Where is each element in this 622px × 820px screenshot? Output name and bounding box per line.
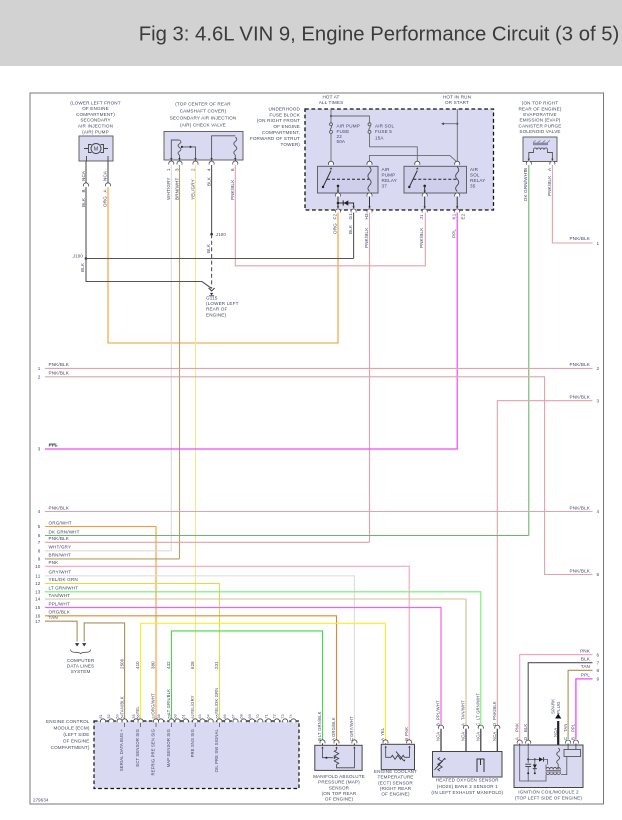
net right3 PNK/BLK to HO2S pin D [497,401,592,727]
MAP sensor wires labels [320,740,325,744]
svg-text:.J100: .J100 [215,232,227,237]
svg-text:8: 8 [38,549,41,554]
svg-text:BLK: BLK [206,243,211,253]
wire BLK pump to J100 [85,187,87,259]
ground G115 symbol [209,288,215,291]
svg-text:D: D [492,723,497,726]
wire PNK/BLK valve pin6 over to relay J1 [235,165,425,266]
wire YEL 410 ECM to ECT sensor pin A [141,623,386,741]
svg-text:NCA: NCA [553,728,558,737]
svg-text:(LEFT SIDE: (LEFT SIDE [63,732,89,737]
pump relay switch [330,167,333,169]
svg-text:PRESSURE (MAP): PRESSURE (MAP) [318,780,360,785]
svg-text:J1: J1 [419,214,424,219]
svg-text:PNK/BLK: PNK/BLK [49,536,70,541]
svg-text:FUSE BLOCK: FUSE BLOCK [269,112,300,117]
svg-text:3: 3 [174,168,179,171]
svg-text:PPL/WHT: PPL/WHT [49,601,71,606]
svg-text:BRN/WHT: BRN/WHT [49,553,72,558]
svg-text:TAN/WHT: TAN/WHT [461,700,466,720]
svg-text:(HO2S) BANK 2 SENSOR 1: (HO2S) BANK 2 SENSOR 1 [437,784,498,789]
ignition coil module block [564,750,581,757]
svg-text:NCA: NCA [81,170,86,181]
air check valve box [164,132,243,161]
ECM pin connectors and numbers [100,719,105,723]
svg-text:67: 67 [231,714,235,718]
ignition coil wires labels [517,740,522,744]
svg-text:PNK/BLK: PNK/BLK [49,371,70,376]
svg-text:BLK: BLK [206,176,211,186]
svg-text:231: 231 [214,661,219,669]
svg-text:SOLENOID VALVE: SOLENOID VALVE [519,129,560,134]
wire G1 BLK to J100 bus [353,213,355,259]
svg-text:4: 4 [206,168,211,171]
svg-text:SOL: SOL [470,173,480,178]
MAP sensor box [315,745,362,770]
svg-text:SYSTEM: SYSTEM [71,669,91,674]
EVAP solenoid coil symbol [533,143,548,146]
svg-text:9: 9 [38,557,41,562]
svg-text:LT GRN/BLK: LT GRN/BLK [166,689,171,715]
svg-text:(LOWER LEFT: (LOWER LEFT [206,301,239,306]
svg-text:RELAY: RELAY [470,178,485,183]
svg-text:60: 60 [173,714,177,718]
svg-text:D: D [523,737,528,740]
svg-text:A: A [461,723,466,726]
svg-text:PNK/BLK: PNK/BLK [570,568,591,573]
svg-text:YEL/DK GRN: YEL/DK GRN [214,688,219,715]
svg-text:(IN LEFT EXHAUST MANIFOLD): (IN LEFT EXHAUST MANIFOLD) [431,790,503,795]
svg-text:51: 51 [99,714,103,718]
svg-text:TAN: TAN [563,723,568,732]
svg-text:(TOP LEFT SIDE OF ENGINE): (TOP LEFT SIDE OF ENGINE) [515,796,582,801]
svg-text:7: 7 [38,540,41,545]
net right6 PNK to ignition coil pin A [520,655,593,741]
wire sol fuse to sol relay switch [370,133,418,162]
svg-text:PNK/BLK: PNK/BLK [364,227,369,248]
svg-text:MAP SENSOR SIG: MAP SENSOR SIG [166,729,171,767]
svg-text:1: 1 [38,366,41,371]
svg-text:PPL: PPL [581,673,590,678]
svg-text:2: 2 [597,366,600,371]
svg-text:A: A [331,738,336,741]
svg-text:(ECT) SENSOR: (ECT) SENSOR [378,780,413,785]
MAP sensor interior [321,747,323,749]
svg-text:EMISSION (EVAP): EMISSION (EVAP) [520,118,561,123]
svg-text:3: 3 [597,398,600,403]
svg-text:PNK: PNK [514,723,519,732]
svg-text:ORG/WHT: ORG/WHT [49,520,72,525]
net 17 TAN to computer data lines [45,621,77,641]
net 11 GRY/WHT to MAP sensor pin C [45,576,354,741]
svg-text:14: 14 [35,597,41,602]
pump relay outputs and diode [335,193,340,197]
fuse block exit connectors [335,209,340,213]
svg-text:OF ENGINE: OF ENGINE [82,106,109,111]
svg-text:16: 16 [35,614,41,619]
net 13 LT GRN/WHT to HO2S pin C [45,592,481,727]
J100 junction and bus [85,257,88,260]
check valve interior solenoid [171,140,179,158]
svg-text:PRE SNS SIG: PRE SNS SIG [190,729,195,757]
ignition coil box [514,745,583,788]
svg-text:PNK: PNK [49,560,60,565]
svg-text:WHT/GRY: WHT/GRY [166,177,171,200]
svg-text:COMPARTMENT): COMPARTMENT) [51,745,90,750]
svg-text:PNK/BLK: PNK/BLK [570,505,591,510]
svg-text:PUMP: PUMP [382,173,396,178]
svg-text:(ON TOP REAR: (ON TOP REAR [322,791,357,796]
svg-text:AIR INJECTION: AIR INJECTION [78,124,113,129]
svg-text:SECONDARY: SECONDARY [80,118,110,123]
svg-text:PPL/WHT: PPL/WHT [436,700,441,720]
svg-text:66: 66 [223,714,227,718]
svg-text:15: 15 [35,605,41,610]
svg-text:A: A [514,737,519,740]
sol relay dashed bar [413,178,456,180]
svg-text:NCA: NCA [476,732,481,741]
svg-text:52: 52 [107,714,111,718]
svg-text:LT GRN/WHT: LT GRN/WHT [49,586,79,591]
wire YEL/GRY valve pin2 down to ECM [195,165,197,720]
svg-text:COMPUTER: COMPUTER [67,658,95,663]
svg-text:E2: E2 [461,213,466,219]
wire BLK valve pin4 to J100 splice [211,165,213,234]
net 15 PPL/WHT to HO2S pin B [45,608,441,727]
svg-text:380: 380 [151,661,156,669]
svg-text:B: B [571,737,576,740]
svg-text:COMPARTMENT): COMPARTMENT) [76,112,115,117]
svg-text:ALL TIMES: ALL TIMES [319,100,344,105]
svg-text:13: 13 [35,590,41,595]
svg-text:10: 10 [35,564,41,569]
svg-text:69: 69 [248,714,252,718]
wire air pump pin A ORG lead [107,161,109,184]
svg-text:GRY/WHT: GRY/WHT [349,716,354,737]
svg-text:OF ENGINE: OF ENGINE [63,738,90,743]
svg-text:(AIR) PUMP: (AIR) PUMP [82,129,109,134]
fuse AIR SOL FUSE 5 15A [368,123,371,126]
svg-text:61: 61 [182,714,186,718]
svg-text:EVAPORATIVE: EVAPORATIVE [523,112,556,117]
svg-text:YEL: YEL [380,727,385,736]
wire H3 PNK/BLK down to net7 [369,213,371,543]
svg-text:FUSE 5: FUSE 5 [375,129,392,134]
svg-text:LT GRN/WHT: LT GRN/WHT [476,693,481,720]
relay AIR SOL RELAY 35 box [404,166,467,193]
svg-text:8: 8 [597,668,600,673]
svg-text:FORWARD OF STRUT: FORWARD OF STRUT [250,136,300,141]
svg-text:410: 410 [135,661,140,669]
svg-text:12: 12 [35,581,41,586]
svg-text:B: B [404,738,409,741]
svg-text:5: 5 [38,524,41,529]
svg-text:SECONDARY AIR INJECTION: SECONDARY AIR INJECTION [170,116,237,121]
svg-text:B: B [436,723,441,726]
svg-text:BLK: BLK [581,657,591,662]
svg-text:TOWER): TOWER) [281,142,301,147]
computer data lines arrows and brace [75,643,79,646]
svg-text:58: 58 [157,714,161,718]
pump relay coil [368,167,371,192]
svg-text:NCA: NCA [492,732,497,741]
J100 splice dot upper [210,233,213,236]
svg-text:BLK: BLK [523,724,528,732]
bus hot at all times [330,109,332,123]
ignition coil interior [520,745,529,781]
sol relay switch [416,167,419,169]
svg-text:ORG/WHT: ORG/WHT [151,693,156,715]
net right9 PPL to ignition coil pin B [576,679,593,739]
net 12 YEL/DK GRN to ECM [45,583,220,719]
svg-text:(ON TOP RIGHT: (ON TOP RIGHT [522,101,558,106]
svg-text:OF ENGINE): OF ENGINE) [325,797,354,802]
svg-text:17: 17 [35,619,41,624]
svg-text:B: B [317,738,322,741]
net 9 BRN/WHT joins valve pin3 [45,558,180,560]
svg-text:74: 74 [289,714,293,718]
air pump motor symbol M [84,148,108,150]
svg-text:YEL/GRY: YEL/GRY [190,695,195,714]
wire BRN/WHT valve pin3 down to net 9 [179,165,181,559]
svg-text:PNK/BLK: PNK/BLK [230,179,235,200]
svg-text:(AIR) CHECK VALVE: (AIR) CHECK VALVE [180,123,226,128]
ignition coil zener diode [534,759,536,764]
svg-text:PNK/BLK: PNK/BLK [570,395,591,400]
svg-text:TAN/BLK: TAN/BLK [119,696,124,714]
svg-text:SPARK: SPARK [551,699,556,714]
svg-text:628: 628 [190,661,195,669]
wire BLK dashed to G115 [211,234,213,288]
svg-text:G1: G1 [348,213,353,220]
svg-text:DK GRN/WHT: DK GRN/WHT [523,170,528,201]
svg-text:YEL/DK GRN: YEL/DK GRN [49,577,78,582]
svg-text:4: 4 [38,509,41,514]
svg-text:(RIGHT REAR: (RIGHT REAR [380,786,412,791]
sol relay outputs [422,193,427,197]
svg-text:9: 9 [597,677,600,682]
svg-text:37: 37 [382,184,388,189]
HO2S sensing element [477,759,484,772]
net 16 ORG/BLK to MAP sensor pin A [45,616,337,741]
svg-text:PNK: PNK [404,727,409,736]
HO2S box [433,752,503,778]
sol relay common pin [423,185,426,188]
svg-text:ENGINE): ENGINE) [206,312,227,317]
svg-text:5: 5 [597,572,600,577]
svg-text:PNK/BLK: PNK/BLK [49,505,70,510]
svg-text:PPL: PPL [452,229,457,238]
svg-text:279634: 279634 [33,798,49,803]
svg-text:OF ENGINE: OF ENGINE [273,124,300,129]
HO2S wires labels [438,725,443,729]
svg-text:TEMPERATURE: TEMPERATURE [377,775,413,780]
ECT sensor thermistor [385,746,387,748]
svg-text:B: B [81,189,86,192]
svg-text:NCA: NCA [436,732,441,741]
relay AIR PUMP RELAY 37 box [318,166,379,193]
svg-text:PNK/BLK: PNK/BLK [547,175,552,196]
svg-text:11: 11 [35,574,40,579]
net 8 WHT/GRY joins valve pin1 [45,550,171,552]
svg-text:(ON RIGHT FRONT: (ON RIGHT FRONT [257,118,300,123]
svg-text:OIL PRE SW SIGNAL: OIL PRE SW SIGNAL [214,728,219,772]
svg-text:6: 6 [230,168,235,171]
svg-text:70: 70 [256,714,260,718]
svg-text:TAN: TAN [49,615,58,620]
air pump box [79,136,113,161]
svg-text:ORG: ORG [332,223,337,234]
svg-text:M: M [94,147,99,153]
net 7 PNK/BLK joins H3 wire [45,541,370,543]
svg-text:A: A [380,738,385,741]
svg-text:ORG: ORG [103,196,108,207]
svg-text:COMPARTMENT,: COMPARTMENT, [262,130,300,135]
wire pump fuse to pump relay [330,133,332,162]
svg-text:C: C [349,738,354,741]
net right8 TAN to ignition coil pin C [568,670,592,739]
svg-text:IGNITION COIL/MODULE 2: IGNITION COIL/MODULE 2 [518,789,579,794]
wire hot in run feed [456,109,458,162]
svg-text:.J100: .J100 [72,253,84,258]
svg-text:OR START: OR START [445,100,469,105]
svg-text:63: 63 [198,714,202,718]
svg-text:35: 35 [470,184,476,189]
svg-text:BLK: BLK [81,197,86,207]
net 10 PNK to ECT sensor pin B [45,566,409,741]
pump relay dashed bar [327,178,369,180]
svg-text:TAN: TAN [581,664,590,669]
fuse block dashed box [305,109,494,210]
wire air pump pin B BLK [85,161,87,184]
svg-text:MODULE (ECM): MODULE (ECM) [54,725,90,730]
wire EVAP DK GRN/WHT down to net6 [528,165,530,536]
svg-text:UNDERHOOD: UNDERHOOD [269,106,301,111]
svg-text:Fig 3: 4.6L VIN 9, Engine Perf: Fig 3: 4.6L VIN 9, Engine Performance Ci… [139,23,620,45]
svg-text:PLUG: PLUG [556,701,561,714]
svg-text:MANIFOLD ABSOLUTE: MANIFOLD ABSOLUTE [313,774,365,779]
svg-text:2500: 2500 [119,658,124,669]
ignition coil transformer [546,768,560,770]
svg-text:REAR OF: REAR OF [206,307,228,312]
svg-text:DATA LINES: DATA LINES [67,664,94,669]
wire LT GRN/BLK 432 ECM to MAP sensor pin B [172,631,323,741]
svg-text:GRY/WHT: GRY/WHT [49,570,72,575]
svg-text:1: 1 [166,168,171,171]
svg-text:(LOWER LEFT FRONT: (LOWER LEFT FRONT [70,100,120,105]
spark plug arrow [557,721,559,745]
ECT sensor box [381,744,414,769]
svg-text:G115: G115 [206,296,218,301]
svg-text:2: 2 [38,375,41,380]
svg-text:K1: K1 [452,213,457,219]
svg-text:71: 71 [264,714,268,718]
svg-text:SENSOR: SENSOR [329,785,350,790]
wire ORG pump to fuse block F2 [108,187,338,343]
svg-text:1: 1 [597,241,600,246]
svg-text:WHT/GRY: WHT/GRY [49,545,72,550]
wire EVAP PNK/BLK to right edge net 1 [552,165,592,243]
wire WHT/GRY valve pin1 down to net 8 [170,165,172,551]
svg-text:PPL: PPL [49,443,58,448]
svg-text:3: 3 [38,447,41,452]
svg-text:PNK/BLK: PNK/BLK [49,362,70,367]
wire K1 PPL down to net3 left [45,213,457,450]
svg-text:PNK/BLK: PNK/BLK [492,701,497,720]
svg-text:H3: H3 [364,213,369,219]
svg-text:OF ENGINE): OF ENGINE) [381,792,410,797]
svg-text:PNK/BLK: PNK/BLK [570,362,591,367]
ECT sensor wires labels [383,740,388,744]
svg-text:PNK: PNK [580,648,591,653]
svg-text:BLK: BLK [80,262,85,272]
svg-text:AIR: AIR [470,167,479,172]
EVAP solenoid box [523,137,557,162]
sol relay coil [456,167,459,192]
net left2/right5 PNK/BLK Z-route [45,377,593,575]
fuse AIR PUMP FUSE 22 50A [330,123,333,126]
svg-text:YEL: YEL [135,706,140,715]
svg-text:ORG/BLK: ORG/BLK [331,717,336,737]
svg-text:72: 72 [273,714,277,718]
svg-text:7: 7 [597,660,600,665]
ECM dashed box [94,721,299,789]
svg-text:NCA: NCA [461,732,466,741]
svg-text:73: 73 [281,714,285,718]
wire J100 branch to G115 [86,259,212,289]
svg-text:ORG/BLK: ORG/BLK [49,610,71,615]
wire relay coils link [370,155,458,162]
header bar [0,0,622,66]
svg-text:REAR OF ENGINE): REAR OF ENGINE) [518,106,561,111]
svg-text:F2: F2 [332,214,337,220]
HO2S heater element [438,758,442,771]
svg-text:6: 6 [597,652,600,657]
svg-text:PNK/BLK: PNK/BLK [570,236,591,241]
svg-text:TAN/WHT: TAN/WHT [49,593,71,598]
svg-text:BLK: BLK [348,224,353,234]
net 14 TAN/WHT to HO2S pin A [45,599,466,726]
svg-text:(TOP CENTER OF REAR: (TOP CENTER OF REAR [175,101,231,106]
svg-text:6: 6 [38,533,41,538]
svg-text:15A: 15A [375,135,384,140]
svg-text:64: 64 [206,714,210,718]
net 5 ORG/WHT to ECM [45,527,156,720]
svg-text:LT GRN/BLK: LT GRN/BLK [317,711,322,737]
svg-text:ECT SENSOR SIG: ECT SENSOR SIG [135,729,140,767]
svg-text:68: 68 [240,714,244,718]
svg-text:REFRIG PRE SEN SIG: REFRIG PRE SEN SIG [151,729,156,775]
svg-text:C: C [563,737,568,740]
svg-text:4: 4 [597,509,600,514]
svg-text:DK GRN/WHT: DK GRN/WHT [49,529,80,534]
svg-text:ENGINE COOLANT: ENGINE COOLANT [374,769,417,774]
net left1/right2 PNK/BLK full width [45,367,593,369]
net right7 BLK to ignition coil pin D [528,663,592,741]
net 6 DK GRN/WHT joins EVAP wire [45,535,529,537]
check valve pin wires [170,160,172,162]
svg-text:YEL/GRY: YEL/GRY [190,179,195,200]
svg-text:CAMSHAFT COVER): CAMSHAFT COVER) [180,109,227,114]
pump relay common pin [337,185,340,188]
svg-text:AIR: AIR [382,167,391,172]
svg-text:50A: 50A [337,139,346,144]
svg-text:HEATED OXYGEN SENSOR: HEATED OXYGEN SENSOR [436,777,499,782]
svg-text:PNK/BLK: PNK/BLK [419,227,424,248]
wire TAN/BLK 2500 serial data to ECM [84,623,124,720]
svg-text:2: 2 [190,168,195,171]
svg-text:PPL: PPL [571,723,576,732]
